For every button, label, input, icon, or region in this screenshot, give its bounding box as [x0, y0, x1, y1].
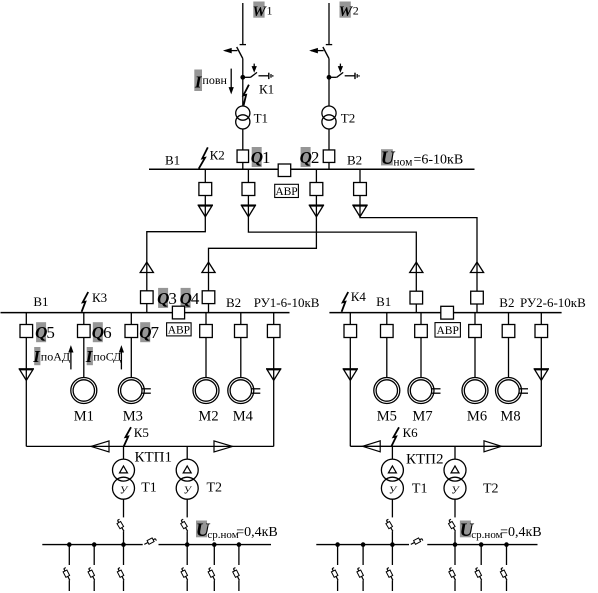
label K2 [210, 147, 225, 162]
motor M1 [71, 378, 97, 404]
svg-text:2: 2 [311, 148, 320, 167]
label M4 [233, 408, 254, 424]
wire to motor M5 [386, 338, 388, 378]
LV feeder with switch at x=187.2 (KTP1) [181, 545, 188, 591]
svg-text:1: 1 [262, 148, 271, 167]
LV feeder with switch at x=392.4 (KTP2) [386, 545, 393, 591]
breaker on bus1 feeder 2 [242, 169, 255, 195]
label B2 (bus1 section 2) [347, 152, 362, 167]
wire T1 to breaker Q1 [242, 129, 244, 150]
breaker RU2 input 1 [410, 291, 423, 312]
svg-text:М7: М7 [412, 408, 432, 424]
wire T2 to breaker Q2 [328, 129, 330, 150]
svg-text:повн: повн [202, 73, 227, 87]
label M6 [467, 408, 487, 424]
label M7 [412, 408, 432, 424]
label K1 [259, 82, 274, 97]
LV feeder with switch at x=506.5 (KTP2) [500, 545, 507, 591]
wire feeder2 routing to RU2 input 1 [248, 217, 416, 262]
node junction on KTP1 LV bus x=238.9 [237, 542, 242, 547]
label Q3 [157, 288, 177, 308]
node junction on W1 column [240, 75, 245, 80]
label KTP2 [406, 452, 444, 468]
svg-text:=0,4кВ: =0,4кВ [500, 525, 542, 540]
arrow Iповн direction (down) [229, 69, 233, 93]
short-circuit point K5 (lightning) [124, 427, 131, 446]
svg-text:Т1: Т1 [254, 111, 268, 126]
breaker Q1 [237, 150, 249, 163]
label W2 [339, 2, 359, 20]
short-circuit point K4 (lightning) [342, 292, 349, 312]
svg-text:К5: К5 [134, 425, 149, 440]
bus tie circuit breaker (RU1) [172, 306, 184, 319]
label KTP1 Т1 [141, 481, 157, 496]
svg-text:РУ1-6-10кВ: РУ1-6-10кВ [254, 295, 320, 310]
node junction on KTP2 LV bus x=337.6 [335, 542, 340, 547]
LV feeder with switch at x=238.9 (KTP1) [233, 545, 240, 591]
disconnector QS2 blade with travel arrow [311, 47, 329, 59]
svg-text:W: W [253, 4, 268, 20]
bus tie circuit breaker (RU2) [441, 306, 454, 319]
svg-text:К6: К6 [403, 425, 419, 440]
svg-text:поСД: поСД [93, 349, 121, 363]
wire KTP2 supply line [350, 445, 541, 447]
LV feeder with switch at x=481.2 (KTP2) [475, 545, 482, 591]
svg-text:КТП1: КТП1 [135, 450, 173, 466]
svg-text:У: У [120, 485, 129, 497]
line W1 incoming feeder wire [240, 3, 246, 45]
svg-text:В2: В2 [499, 295, 514, 310]
bus tie circuit breaker (bus1) [278, 164, 291, 177]
node junction on KTP1 LV bus x=214.3 [212, 542, 217, 547]
switch QF on KTP2 Т1 LV side [386, 499, 393, 544]
svg-text:=0,4кВ: =0,4кВ [236, 525, 278, 540]
wire to KTP1 transformer Т1 [123, 446, 125, 459]
svg-text:Т2: Т2 [483, 482, 499, 497]
cable arrow on bus1 feeder 1 [198, 196, 213, 217]
cable arrow on RU2 left feeder [343, 338, 358, 447]
transformer KTP2 Т1 (delta-wye) [381, 459, 403, 499]
svg-text:М3: М3 [123, 408, 143, 424]
svg-text:АВР: АВР [275, 186, 297, 198]
label Q6 [92, 322, 112, 342]
motor M8 (synchronous) [496, 378, 529, 404]
motor M6 [462, 378, 488, 404]
motor M7 (synchronous) [408, 378, 441, 404]
cable arrow on RU2 right feeder [534, 338, 549, 447]
svg-text:ср.ном: ср.ном [207, 529, 238, 541]
wire to KTP2 transformer Т2 [454, 446, 456, 459]
transformer T2 (main, two windings) [322, 106, 336, 129]
wire feeder4 routing to RU2 input 2 [360, 217, 477, 262]
node junction on KTP2 LV bus x=363.1 [361, 542, 366, 547]
device ABP box (RU1 auto transfer) [167, 323, 192, 337]
svg-text:М6: М6 [467, 408, 487, 424]
svg-text:АВР: АВР [437, 325, 459, 337]
transformer T1 (main, two windings) [236, 106, 250, 129]
motor M3 (synchronous) [118, 378, 151, 404]
label M3 [123, 408, 143, 424]
svg-text:К4: К4 [351, 289, 367, 304]
disconnector QS1 blade with travel arrow [225, 47, 243, 59]
svg-text:ср.ном: ср.ном [471, 529, 502, 541]
node junction on KTP1 LV bus x=187.2 [185, 542, 190, 547]
short-circuit point K3 (lightning) [82, 292, 89, 312]
wire to KTP2 transformer Т1 [391, 446, 393, 459]
label K5 [134, 425, 149, 440]
label K4 [351, 289, 367, 304]
svg-text:М1: М1 [74, 408, 94, 424]
label Q4 [180, 288, 200, 308]
svg-text:2: 2 [353, 3, 359, 17]
label K6 [403, 425, 419, 440]
svg-text:РУ2-6-10кВ: РУ2-6-10кВ [520, 295, 586, 310]
label Iповн (full current) [194, 70, 228, 92]
wire KTP1 supply line [26, 445, 273, 447]
label W1 [253, 2, 273, 20]
label M2 [198, 408, 218, 424]
label IпоСД (sync motor feedback current) [85, 347, 122, 366]
label RU2-6-10kV [520, 295, 586, 310]
LV feeder with switch at x=69.3 (KTP1) [63, 545, 70, 591]
svg-text:М8: М8 [500, 408, 520, 424]
label M1 [74, 408, 94, 424]
wire Q2 to bus [328, 163, 330, 170]
svg-text:У: У [389, 485, 398, 497]
svg-text:W: W [339, 4, 354, 20]
incoming arrow to RU2 input 2 [470, 262, 483, 291]
node junction on KTP2 LV bus x=392.4 [390, 542, 395, 547]
node junction on W2 column [327, 75, 332, 80]
svg-text:М5: М5 [377, 408, 397, 424]
breaker Q2 [323, 150, 335, 163]
node junction on KTP1 LV bus x=69.3 [67, 542, 72, 547]
svg-text:Т1: Т1 [412, 482, 428, 497]
svg-text:4: 4 [191, 289, 200, 308]
bus KTP1 0,4kV section 1 [42, 544, 142, 546]
svg-text:М4: М4 [233, 408, 254, 424]
LV feeder with switch at x=214.3 (KTP1) [208, 545, 215, 591]
transformer KTP1 Т2 (delta-wye) [176, 459, 198, 499]
arrow IпоСД direction (up) [120, 347, 124, 370]
label IпоАД (motor feedback current) [32, 347, 70, 366]
incoming arrow to breaker Q4 [202, 262, 215, 291]
svg-text:У: У [451, 485, 460, 497]
svg-text:К1: К1 [259, 82, 274, 97]
cable arrow on Q5 feeder to KTP1 [19, 338, 34, 447]
svg-text:ном: ном [393, 157, 413, 169]
svg-text:=6-10кВ: =6-10кВ [414, 153, 464, 168]
wire feeder3 routing to RU1 input 2 [209, 217, 317, 262]
svg-text:У: У [183, 485, 192, 497]
label K3 [92, 290, 107, 305]
svg-text:Т1: Т1 [141, 481, 157, 496]
label M5 [377, 408, 397, 424]
node junction on KTP2 LV bus x=506.5 [504, 542, 509, 547]
breaker on RU2 feeder to KTP2 left [344, 313, 357, 338]
bus KTP1 0,4kV section 2 [159, 544, 272, 546]
label RU1-6-10kV [254, 295, 320, 310]
line W2 incoming feeder wire [326, 3, 332, 45]
svg-text:В1: В1 [376, 294, 391, 309]
breaker Q7 [125, 313, 138, 338]
arrow on KTP1 line (right direction) [214, 441, 233, 452]
wire Q7 to motor M3 [130, 338, 132, 378]
breaker on M2 feeder [200, 313, 213, 338]
short-circuit point K1 (lightning) [243, 85, 249, 106]
svg-text:В1: В1 [33, 294, 48, 309]
breaker on bus1 feeder 4 [354, 169, 367, 195]
label KTP1 [135, 450, 173, 466]
earthing switch branch of W2 [329, 64, 355, 78]
bus KTP2 0,4kV section 1 [316, 544, 409, 546]
svg-text:АВР: АВР [168, 324, 190, 336]
wire to KTP1 transformer Т2 [186, 446, 188, 459]
plug contact symbol on W2 earthing branch [355, 73, 359, 79]
arrow on KTP1 line (left direction) [91, 441, 109, 452]
tie switch between KTP1 LV sections [144, 538, 156, 545]
label KTP2 Т2 [483, 482, 499, 497]
breaker on bus1 feeder 1 [199, 169, 212, 195]
breaker on RU2 feeder to KTP2 right [535, 313, 548, 338]
breaker Q3 (RU1 input 1) [141, 291, 154, 313]
breaker on M6 feeder [469, 313, 482, 338]
LV feeder with switch at x=94.2 (KTP1) [88, 545, 95, 591]
short-circuit point K2 (lightning) [199, 147, 208, 168]
breaker Q6 [78, 313, 91, 338]
cable arrow on bus1 feeder 3 [309, 196, 324, 217]
node junction on KTP2 LV bus x=455.0 [453, 542, 458, 547]
incoming arrow to RU2 input 1 [410, 262, 423, 291]
label Q1 [251, 147, 271, 167]
breaker Q4 (RU1 input 2) [202, 291, 215, 313]
motor M2 [193, 378, 219, 404]
arrow on KTP2 line (left direction) [363, 441, 381, 452]
svg-text:В1: В1 [165, 152, 180, 167]
breaker RU2 input 2 [471, 291, 484, 312]
bus KTP2 0,4kV section 2 [427, 544, 537, 546]
wire to motor M7 [420, 338, 422, 378]
LV feeder with switch at x=363.1 (KTP2) [357, 545, 364, 591]
svg-text:К2: К2 [210, 147, 225, 162]
bus section B1-B2 6-10kV [149, 168, 475, 170]
earthing switch branch of W1 [243, 64, 268, 78]
LV feeder with switch at x=337.6 (KTP2) [331, 545, 338, 591]
svg-text:5: 5 [46, 323, 55, 342]
svg-text:6: 6 [103, 323, 112, 342]
cable arrow on bus1 feeder 2 [241, 196, 256, 217]
label T2 [341, 111, 355, 126]
wire QS2 to junction [328, 59, 330, 78]
svg-text:1: 1 [267, 3, 273, 17]
bus RU2 6-10kV [329, 312, 561, 314]
breaker Q5 [20, 313, 33, 338]
short-circuit point K6 (lightning) [392, 427, 400, 446]
breaker on M7 feeder [415, 313, 428, 338]
label B2 (RU2 section 2) [499, 295, 514, 310]
plug contact symbol on W1 earthing branch [269, 73, 273, 79]
transformer KTP2 Т2 (delta-wye) [444, 459, 466, 499]
cable arrow on bus1 feeder 4 [352, 196, 367, 217]
breaker on M8 feeder [502, 313, 515, 338]
label Uном=6-10кВ [381, 148, 464, 169]
svg-text:М2: М2 [198, 408, 218, 424]
svg-text:7: 7 [151, 323, 160, 342]
breaker on RU1 feeder to KTP1 right [267, 313, 280, 338]
svg-text:Т2: Т2 [341, 111, 355, 126]
label Q2 [300, 147, 320, 167]
svg-text:3: 3 [168, 289, 177, 308]
label B1 (RU2 section 1) [376, 294, 391, 309]
svg-text:КТП2: КТП2 [406, 452, 444, 468]
wire QS1 to junction [242, 59, 244, 78]
wire to motor M4 [240, 338, 242, 378]
breaker on M4 feeder [235, 313, 248, 338]
label KTP1 Т2 [207, 481, 223, 496]
label Q5 [35, 322, 55, 342]
cable arrow on RU1 right feeder [266, 338, 281, 447]
node junction on KTP1 LV bus x=123.5 [121, 542, 126, 547]
wire to motor M6 [474, 338, 476, 378]
label B2 (RU1 section 2) [226, 295, 241, 310]
svg-text:Т2: Т2 [207, 481, 223, 496]
switch QF on KTP2 Т2 LV side [449, 499, 456, 544]
bus RU1 6-10kV [1, 312, 290, 314]
svg-text:В2: В2 [226, 295, 241, 310]
wire feeder1 routing to RU1 input 1 [147, 217, 206, 262]
motor M4 (synchronous) [228, 378, 260, 404]
wire Q1 to bus [242, 163, 244, 170]
svg-text:поАД: поАД [41, 349, 70, 363]
device ABP box (bus1 auto transfer) [275, 184, 299, 198]
switch QF on KTP1 Т2 LV side [181, 499, 188, 544]
breaker on M5 feeder [381, 313, 394, 338]
LV feeder with switch at x=455.0 (KTP2) [449, 545, 456, 591]
label Ucp.ном=0,4кВ (KTP2) [460, 520, 542, 541]
arrow IпоАД direction (up) [69, 347, 73, 370]
label Ucp.ном=0,4кВ (KTP1) [196, 520, 278, 541]
tie switch between KTP2 LV sections [411, 538, 423, 545]
transformer KTP1 Т1 (delta-wye) [113, 459, 135, 499]
node junction on KTP1 LV bus x=94.2 [92, 542, 97, 547]
wire junction to transformer T1 [242, 77, 244, 106]
label B1 (bus1 section 1) [165, 152, 180, 167]
label T1 [254, 111, 268, 126]
arrow on KTP2 line (right direction) [484, 441, 502, 452]
wire to motor M2 [205, 338, 207, 378]
wire Q6 to motor M1 [83, 338, 85, 378]
svg-text:К3: К3 [92, 290, 107, 305]
label M8 [500, 408, 520, 424]
LV feeder with switch at x=123.5 (KTP1) [117, 545, 124, 591]
breaker on bus1 feeder 3 [310, 169, 323, 195]
wire to motor M8 [508, 338, 510, 378]
switch QF on KTP1 Т1 LV side [117, 499, 124, 544]
device ABP box (RU2 auto transfer) [435, 323, 460, 338]
label KTP2 Т1 [412, 482, 428, 497]
wire junction to transformer T2 [328, 77, 330, 106]
label Q7 [139, 322, 159, 342]
svg-text:В2: В2 [347, 152, 362, 167]
incoming arrow to breaker Q3 [140, 262, 153, 291]
motor M5 [374, 378, 400, 404]
label B1 (RU1 section 1) [33, 294, 48, 309]
node junction on KTP2 LV bus x=481.2 [479, 542, 484, 547]
